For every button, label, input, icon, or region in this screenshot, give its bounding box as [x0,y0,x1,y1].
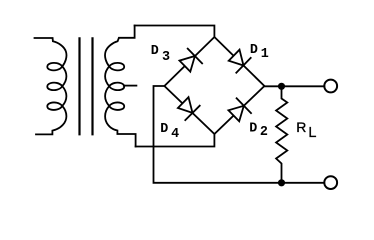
svg-text:4: 4 [171,127,179,142]
svg-text:2: 2 [260,125,268,140]
svg-text:D: D [250,43,258,58]
svg-text:D: D [249,122,257,137]
svg-text:D: D [151,44,159,59]
svg-text:L: L [308,125,316,141]
svg-text:3: 3 [162,50,170,65]
svg-text:1: 1 [261,47,269,62]
svg-text:R: R [296,119,306,135]
svg-text:D: D [160,122,168,137]
